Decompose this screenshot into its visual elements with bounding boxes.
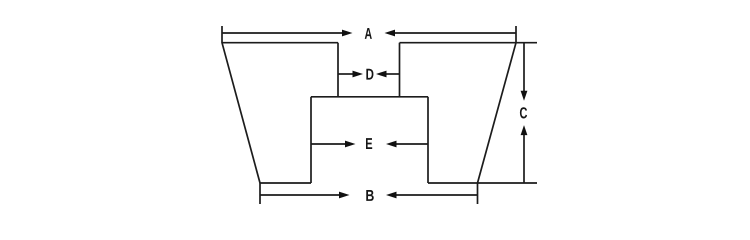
outline: right outer slant: [478, 43, 517, 183]
dimension A right line: [394, 32, 516, 34]
label C: [520, 107, 527, 118]
arrowhead C top (points down): [521, 91, 528, 101]
arrowhead D left (points right): [353, 71, 364, 78]
outline: left outer slant: [222, 43, 260, 183]
dimension E left line: [311, 143, 346, 145]
label B: [366, 190, 373, 201]
arrowhead D right (points left): [376, 71, 387, 78]
outline: bottom edge of left foot: [260, 182, 311, 184]
outline: top edge of left wing: [222, 42, 338, 44]
witness line A right: [515, 26, 517, 43]
dimension A left line: [222, 32, 343, 34]
arrowhead A left (points right): [342, 30, 353, 37]
arrowhead C bottom (points up): [521, 125, 528, 135]
outline: top edge of right wing plus C top extension line: [400, 42, 538, 44]
arrowhead E right (points left): [386, 141, 397, 148]
outline: left block wall: [310, 97, 312, 183]
outline: bottom edge of right foot plus C bottom extension line: [428, 182, 537, 184]
outline: left notch vertical: [337, 43, 339, 97]
dimension D right line: [385, 73, 400, 75]
label A: [365, 28, 372, 39]
arrowhead A right (points left): [385, 30, 396, 37]
dimension D left line: [338, 73, 354, 75]
label E: [366, 138, 372, 149]
outline: right notch vertical: [399, 43, 401, 97]
dimension B right line: [395, 194, 478, 196]
dimension C top line: [523, 43, 525, 92]
arrowhead B left (points right): [339, 192, 350, 199]
outline: plateau horizontal: [311, 96, 428, 98]
dimension E right line: [395, 143, 428, 145]
dimension B left line: [260, 194, 340, 196]
witness line B right: [477, 183, 479, 204]
witness line A left: [221, 26, 223, 43]
outline: right block wall: [427, 97, 429, 183]
arrowhead B right (points left): [386, 192, 397, 199]
dimension C bottom line: [523, 134, 525, 183]
arrowhead E left (points right): [345, 141, 356, 148]
witness line B left: [259, 183, 261, 204]
label D: [366, 69, 373, 80]
